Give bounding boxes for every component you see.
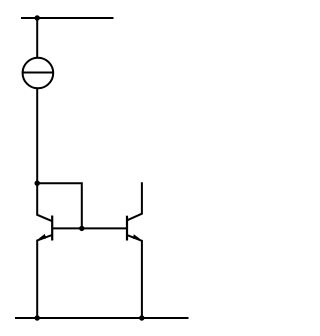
wire: top rail to current source: [36, 18, 38, 58]
junction: bottom rail right: [139, 315, 144, 320]
transistor Q1 emitter arrow: [39, 234, 46, 239]
transistor Q2 emitter lead: [127, 235, 142, 318]
transistor Q2 collector lead: [127, 182, 142, 220]
wire: bottom rail: [15, 317, 189, 319]
wire: top supply rail: [21, 17, 114, 19]
junction: bottom rail left: [35, 315, 40, 320]
wire: node A to base rail (diode connection): [37, 183, 82, 228]
wire: current source to node A: [36, 88, 38, 183]
transistor Q1 emitter lead: [37, 235, 52, 318]
transistor Q2 base bar: [126, 216, 128, 241]
transistor Q2 emitter arrow: [133, 234, 140, 239]
junction: node A (collector tap): [35, 181, 40, 186]
junction: top rail node: [35, 15, 40, 20]
transistor Q1 collector lead: [37, 183, 52, 221]
wire: base rail Q1 to Q2: [52, 227, 127, 229]
current source I1: [22, 58, 54, 89]
transistor Q1 base bar: [51, 216, 53, 241]
junction: base rail node: [79, 226, 84, 231]
